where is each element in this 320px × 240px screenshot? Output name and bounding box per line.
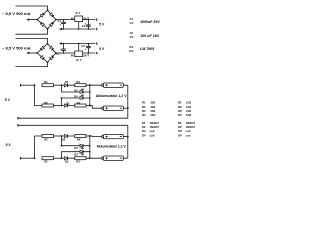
diode D1' — [64, 157, 67, 160]
node X2' — [61, 135, 63, 137]
wire R2 to X2 — [54, 105, 62, 107]
svg-text:1N4007: 1N4007 — [150, 121, 160, 125]
svg-text:15Ω: 15Ω — [186, 101, 192, 105]
node branch junction circuit 2 — [34, 157, 36, 159]
wire regulator ground pin — [78, 22, 80, 29]
svg-text:D4: D4 — [142, 133, 146, 137]
bridge diode top-right — [50, 13, 53, 16]
svg-text:R2: R2 — [142, 105, 146, 109]
svg-text:Akkumulator 1,2 V: Akkumulator 1,2 V — [96, 94, 128, 98]
node X1 — [61, 84, 63, 86]
svg-text:D4’: D4’ — [74, 146, 78, 150]
node Y2' — [89, 135, 91, 137]
bridge diode top-right cathode bar — [52, 15, 54, 17]
bridge diode bottom-left — [41, 46, 44, 49]
bridge diode bottom-right cathode bar — [52, 49, 54, 51]
bridge diode top-right — [50, 57, 53, 60]
svg-text:D3’: D3’ — [74, 152, 78, 156]
diode D2' — [64, 134, 67, 137]
node bridge right corner — [55, 19, 57, 21]
node row3 left — [61, 97, 63, 99]
node bridge top corner — [47, 61, 49, 63]
svg-text:15Ω: 15Ω — [150, 113, 156, 117]
svg-text:R1’: R1’ — [44, 160, 48, 164]
svg-text:R2: R2 — [44, 101, 48, 105]
svg-text:LM 7805: LM 7805 — [140, 47, 154, 51]
wire LED row D3 — [62, 85, 90, 92]
svg-text:OUT: OUT — [83, 54, 89, 58]
node Y1 — [89, 84, 91, 86]
svg-text:IC 1’: IC 1’ — [76, 58, 82, 62]
node bridge bottom corner — [47, 43, 49, 45]
wire jog to battery 2 — [90, 106, 102, 109]
svg-text:15Ω: 15Ω — [186, 105, 192, 109]
svg-text:D2: D2 — [66, 102, 70, 106]
svg-text:IN: IN — [71, 54, 74, 58]
svg-text:1N4007: 1N4007 — [186, 125, 196, 129]
node C2 bottom — [88, 28, 90, 30]
svg-text:IN: IN — [71, 16, 74, 20]
svg-text:IC1’: IC1’ — [129, 49, 134, 53]
svg-text:C2’: C2’ — [130, 35, 134, 39]
svg-text:R3: R3 — [76, 80, 80, 84]
svg-text:5 V: 5 V — [6, 143, 12, 147]
resistor R3' — [75, 157, 86, 160]
node Y2 — [89, 105, 91, 107]
svg-text:R4: R4 — [142, 113, 146, 117]
svg-text:C1: C1 — [58, 19, 62, 23]
node C2 top — [88, 19, 90, 21]
wire AC line A to bridge top — [16, 6, 48, 10]
svg-text:D3: D3 — [74, 88, 78, 92]
svg-text:OUT: OUT — [83, 16, 89, 20]
capacitor C2 plates — [86, 46, 91, 47]
node row2 right — [89, 91, 91, 93]
svg-text:1000uF 25V: 1000uF 25V — [140, 20, 160, 24]
svg-text:R1: R1 — [44, 80, 48, 84]
svg-text:D3: D3 — [142, 129, 146, 133]
svg-text:5 V: 5 V — [99, 47, 105, 51]
svg-text:D2’: D2’ — [178, 125, 182, 129]
svg-text:D1: D1 — [142, 121, 146, 125]
svg-text:Led: Led — [186, 129, 191, 133]
node return join battery 2 — [127, 107, 129, 109]
svg-text:~ 8,5 V 500 mA: ~ 8,5 V 500 mA — [2, 47, 31, 51]
svg-text:C1’: C1’ — [130, 21, 134, 25]
node bridge left corner — [36, 52, 38, 54]
terminal return circuit 1 — [17, 117, 18, 119]
node Y1' — [89, 157, 91, 159]
wire battery 4 leads — [90, 157, 128, 159]
wire R1' to node X1' — [54, 157, 62, 159]
wire battery 3 right lead — [123, 136, 128, 138]
terminal return circuit 2 — [17, 124, 18, 126]
arrowhead ground rail terminal — [59, 42, 62, 44]
terminal output plus — [96, 18, 97, 20]
wire row4' through D2' and R4' — [62, 135, 90, 137]
wire LED row D4' — [62, 136, 90, 146]
svg-text:15Ω: 15Ω — [150, 105, 156, 109]
battery cell 2 Akkumulator — [103, 106, 123, 110]
node row3' right — [89, 145, 91, 147]
svg-text:R1: R1 — [142, 101, 146, 105]
terminal output plus — [96, 52, 97, 54]
capacitor C2 plates — [86, 25, 91, 26]
svg-text:D1’: D1’ — [178, 121, 182, 125]
svg-text:Led: Led — [186, 133, 191, 137]
svg-text:Akkumulator 1,2 V: Akkumulator 1,2 V — [97, 144, 127, 148]
diode D2 — [64, 104, 67, 107]
LED D4' — [80, 144, 83, 147]
battery cell 1 Akkumulator — [103, 83, 123, 87]
wire LED row D4 — [62, 98, 90, 106]
arrowhead ground rail terminal — [59, 28, 62, 30]
wire to DC minus arrow terminal — [28, 19, 37, 21]
resistor R4' — [75, 135, 86, 138]
wire battery 1 leads — [90, 84, 128, 86]
svg-text:R1’: R1’ — [178, 101, 182, 105]
node bridge left corner — [36, 19, 38, 21]
wire battery 2 right lead — [123, 107, 128, 109]
capacitor C1 plates — [61, 22, 66, 23]
LED D3 — [80, 90, 83, 93]
node row3 right — [89, 97, 91, 99]
LED D3' — [80, 150, 83, 153]
svg-text:IC1: IC1 — [129, 45, 134, 49]
bridge diode bottom-left cathode bar — [40, 48, 42, 50]
bridge diode top-left — [40, 56, 43, 59]
node X2 — [61, 105, 63, 107]
bridge diode bottom-left cathode bar — [40, 22, 42, 24]
svg-text:15Ω: 15Ω — [186, 113, 192, 117]
svg-text:D1: D1 — [65, 80, 69, 84]
svg-text:R4’: R4’ — [77, 138, 81, 142]
wire ground rail — [61, 43, 96, 45]
resistor R2' — [42, 135, 54, 138]
svg-text:5 V: 5 V — [99, 22, 105, 26]
svg-text:5 V: 5 V — [5, 98, 11, 102]
wire LED row D3' — [62, 152, 90, 159]
svg-text:C2: C2 — [130, 31, 134, 35]
wire right vertical Y1' to row4' — [89, 136, 91, 158]
svg-text:Led: Led — [150, 133, 155, 137]
svg-text:R3’: R3’ — [76, 160, 80, 164]
node row2' right — [89, 151, 91, 153]
wire right vertical Y1 to row4 — [89, 85, 91, 105]
battery cell 4 Akkumulator — [103, 156, 123, 160]
wire row4 through D2 and R4 — [62, 105, 90, 107]
svg-text:D4: D4 — [74, 94, 78, 98]
terminal 5V input circuit 2 — [20, 157, 21, 159]
wire branch to lower row — [35, 85, 43, 105]
arrowhead DC minus terminal — [26, 18, 29, 20]
resistor R1' — [42, 157, 54, 160]
svg-text:D4’: D4’ — [178, 133, 182, 137]
wire AC line B from bridge bottom corner — [16, 29, 48, 34]
node C1 bottom — [63, 28, 65, 30]
wire 5V feed circuit 2 — [21, 157, 35, 159]
bridge diode top-left cathode bar — [43, 58, 45, 60]
svg-text:D2’: D2’ — [62, 138, 66, 142]
capacitor C1 leads — [63, 20, 65, 29]
svg-text:15Ω: 15Ω — [150, 101, 156, 105]
svg-text:Led: Led — [150, 129, 155, 133]
wire R1 to node X1 — [54, 84, 62, 86]
svg-text:R2’: R2’ — [178, 105, 182, 109]
wire row1 through D1 and R3 — [62, 84, 90, 86]
node C2 top — [88, 52, 90, 54]
resistor R3 — [75, 84, 86, 87]
bridge rectifier diamond wires — [37, 44, 56, 63]
svg-text:1N4007: 1N4007 — [150, 125, 160, 129]
node branch junction — [34, 84, 36, 86]
wire regulator ground pin — [78, 44, 80, 51]
battery cell 3 Akkumulator — [103, 134, 123, 138]
node bridge right corner — [55, 52, 57, 54]
wire row1' through D1' and R3' — [62, 157, 90, 159]
node C2 bottom — [88, 43, 90, 45]
terminal output minus — [96, 42, 97, 44]
node bridge bottom corner — [47, 28, 49, 30]
wire DC plus rail — [56, 52, 95, 54]
node bridge top corner — [47, 9, 49, 11]
bridge rectifier diamond wires — [37, 10, 56, 29]
bridge diode bottom-right cathode bar — [52, 22, 54, 24]
resistor R2 — [42, 104, 54, 107]
wire DC plus rail — [56, 19, 95, 21]
resistor R4 — [75, 104, 86, 107]
svg-text:R2’: R2’ — [44, 138, 48, 142]
svg-text:1N4007: 1N4007 — [186, 121, 196, 125]
voltage regulator box — [75, 51, 83, 57]
svg-text:R4: R4 — [77, 101, 81, 105]
node C1 top — [63, 52, 65, 54]
svg-text:D2: D2 — [142, 125, 146, 129]
voltage regulator box — [75, 16, 83, 22]
terminal 5V input circuit 1 — [20, 84, 21, 86]
node regulator ground on rail — [78, 43, 80, 45]
wire AC line A to bridge top — [16, 62, 48, 66]
bridge diode bottom-right — [50, 46, 53, 49]
svg-text:15Ω: 15Ω — [186, 109, 192, 113]
node regulator ground on rail — [78, 28, 80, 30]
terminal output minus — [96, 28, 97, 30]
wire to battery 3 — [90, 135, 102, 138]
arrowhead DC minus terminal — [26, 52, 29, 54]
wire to DC minus arrow terminal — [28, 52, 37, 54]
node X1' — [61, 157, 63, 159]
wire return vertical and line back to supply — [18, 85, 128, 118]
node row3' left — [61, 145, 63, 147]
wire return vertical and line back to supply circuit 2 — [18, 125, 128, 158]
capacitor C1 plates — [61, 49, 66, 50]
svg-text:100 uF 16V: 100 uF 16V — [140, 34, 160, 38]
capacitor C1 leads — [63, 44, 65, 53]
bridge diode top-right cathode bar — [52, 56, 54, 58]
diode D1 — [64, 84, 67, 87]
LED D4 — [80, 96, 83, 99]
svg-text:R3’: R3’ — [178, 109, 182, 113]
wire AC line B from bridge bottom corner — [16, 38, 48, 43]
capacitor C2 leads — [87, 20, 89, 29]
svg-text:IC 1: IC 1 — [76, 11, 81, 15]
svg-text:~ 8,5 V 500 mA: ~ 8,5 V 500 mA — [2, 12, 31, 16]
wire ground rail — [61, 28, 96, 30]
node C1 bottom — [63, 43, 65, 45]
node C1 top — [63, 19, 65, 21]
wire R2' to X2' — [54, 135, 62, 137]
wire branch to upper row — [35, 136, 43, 158]
svg-text:R4’: R4’ — [178, 113, 182, 117]
bridge diode top-left cathode bar — [43, 13, 45, 15]
svg-text:D1’: D1’ — [65, 160, 69, 164]
svg-text:C1’: C1’ — [56, 52, 60, 56]
wire 5V feed — [21, 84, 35, 86]
bridge diode bottom-right — [50, 23, 53, 26]
node return join battery 3 — [127, 136, 129, 138]
svg-text:15Ω: 15Ω — [150, 109, 156, 113]
resistor R1 — [42, 84, 54, 87]
svg-text:D3’: D3’ — [178, 129, 182, 133]
bridge diode top-left — [40, 14, 43, 17]
svg-text:R3: R3 — [142, 109, 146, 113]
capacitor C2 leads — [87, 44, 89, 53]
svg-text:C1: C1 — [130, 17, 134, 21]
bridge diode bottom-left — [41, 23, 44, 26]
